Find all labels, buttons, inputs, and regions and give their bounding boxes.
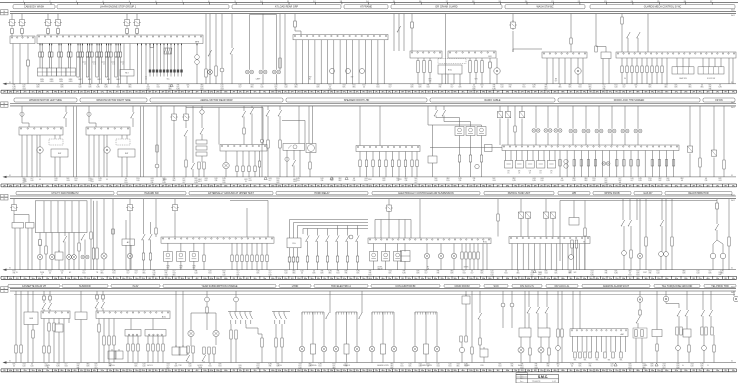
resistor R39	[398, 160, 400, 167]
svg-text:S,W: S,W	[614, 273, 618, 275]
wire W115	[489, 68, 491, 84]
wire W463	[702, 316, 704, 327]
svg-text:2Fc: 2Fc	[447, 185, 450, 187]
wire comb1-3	[160, 45, 162, 69]
svg-text:5Fd: 5Fd	[622, 278, 625, 280]
svg-text:1Fe: 1Fe	[716, 92, 719, 94]
lamp L-pos	[208, 70, 213, 75]
resistor R130	[557, 329, 559, 337]
wire W182	[243, 117, 245, 129]
svg-text:9Fc: 9Fc	[254, 92, 257, 94]
wire W23	[51, 44, 53, 53]
wire comb3-6	[651, 58, 653, 66]
svg-text:8Fb: 8Fb	[561, 92, 564, 94]
svg-text:2Fc: 2Fc	[375, 185, 378, 187]
pin stub	[70, 44, 72, 46]
wire W215	[435, 106, 437, 110]
wire comb4-5	[595, 151, 597, 177]
lamp frame N SERVO HON	[415, 312, 437, 346]
resistor K-a	[514, 126, 516, 132]
resistor R108	[137, 344, 139, 351]
connector X1	[10, 36, 35, 44]
wire W353	[49, 300, 51, 303]
fuse F38	[292, 257, 295, 262]
wire W236	[557, 133, 559, 145]
wire sd	[157, 336, 159, 344]
lamp L7	[101, 253, 107, 259]
wire W95	[403, 14, 405, 51]
wire W360	[48, 353, 50, 363]
wire W203	[293, 166, 295, 177]
resistor R118	[213, 347, 215, 354]
svg-text:1Fe: 1Fe	[46, 185, 49, 187]
control unit U11	[47, 68, 57, 76]
label T65	[377, 364, 389, 367]
wire W395	[203, 354, 205, 355]
wire comb1-long2	[145, 44, 147, 84]
pin stub	[60, 44, 62, 46]
svg-text:DIV ACCU AL: DIV ACCU AL	[555, 285, 570, 288]
svg-text:9Fa: 9Fa	[583, 370, 586, 372]
svg-text:5Fb: 5Fb	[644, 185, 647, 187]
wire W53	[110, 44, 112, 53]
wire long B	[143, 107, 145, 177]
wire W51	[106, 44, 108, 53]
wire W435	[546, 291, 548, 307]
switch S48	[478, 313, 482, 319]
svg-text:2Fe: 2Fe	[395, 185, 398, 187]
wire comb4-15	[666, 151, 668, 177]
section title box: FR DN	[703, 98, 735, 102]
resistor R106	[127, 344, 129, 351]
wire tel11	[624, 336, 626, 352]
wire comb5b-1	[236, 262, 238, 270]
wire W69	[160, 73, 162, 77]
resistor R18	[646, 66, 648, 73]
bus right-edge tag	[731, 101, 734, 109]
wire comb5-1	[236, 243, 238, 255]
ruler tick 18	[472, 1, 475, 4]
wire W21	[49, 44, 51, 53]
resistor R124	[460, 336, 462, 342]
wire acu	[102, 291, 104, 295]
wire W408	[312, 312, 314, 344]
wire W252	[39, 245, 41, 255]
fuse F26	[110, 52, 113, 57]
wire W184	[251, 114, 253, 145]
svg-text:CAB BODY WASH: CAB BODY WASH	[24, 6, 44, 9]
wire W150	[39, 153, 41, 177]
svg-text:7Fb: 7Fb	[514, 92, 517, 94]
wire W383	[162, 351, 164, 363]
resistor R67	[149, 253, 151, 260]
wire comb2-6	[333, 40, 335, 84]
fuse F17	[81, 52, 84, 57]
wire W351	[32, 338, 34, 363]
power bus line (lower)	[10, 198, 736, 200]
label T37	[518, 171, 521, 175]
section title box: CRUD ROOM	[444, 284, 480, 288]
svg-text:1Fb: 1Fb	[469, 370, 472, 372]
wire W232	[547, 106, 549, 128]
actuator units hazard	[164, 252, 199, 262]
wire wk	[622, 199, 624, 220]
lamp pair heater 612	[608, 129, 616, 133]
resistor R74	[256, 255, 258, 262]
wire W441	[557, 291, 559, 329]
relay K-ecas	[385, 203, 393, 213]
wire lamp feed	[598, 106, 600, 129]
svg-text:2Fe: 2Fe	[116, 92, 119, 94]
svg-text:HORN RELAY: HORN RELAY	[314, 192, 330, 195]
wire W309	[473, 259, 475, 270]
resistor R149	[711, 327, 713, 335]
resistor R63	[90, 232, 92, 239]
label T40	[550, 171, 553, 175]
wire W226	[507, 119, 509, 146]
ruler line	[0, 1, 738, 3]
pin stub	[58, 44, 60, 46]
wire W10	[126, 34, 128, 36]
fuse F15	[77, 52, 80, 57]
wire W343	[728, 199, 730, 237]
wire W284	[143, 240, 145, 254]
wire pill3	[461, 244, 463, 253]
svg-text:1Fa: 1Fa	[657, 370, 660, 372]
svg-text:1Fc: 1Fc	[476, 278, 479, 280]
wire W466	[703, 350, 705, 362]
wire W93	[393, 14, 395, 51]
resistor R20	[198, 162, 200, 169]
resistor R60	[723, 160, 725, 169]
wire W11	[136, 14, 138, 18]
pin stub	[106, 44, 108, 46]
switch S41	[48, 303, 52, 309]
wire W337	[671, 199, 673, 237]
svg-text:3Fa: 3Fa	[675, 185, 678, 187]
section title box: HORN RELAY	[276, 191, 368, 195]
svg-text:9Fb: 9Fb	[454, 278, 457, 280]
svg-text:2Fe: 2Fe	[168, 92, 171, 94]
svg-text:2Fe: 2Fe	[116, 370, 119, 372]
wire jog wm	[22, 116, 29, 127]
section title box: AT LOAD REAR GRP	[232, 5, 341, 9]
fuse F36	[112, 229, 115, 234]
svg-text:5Fd: 5Fd	[427, 370, 430, 372]
wire frame c	[425, 354, 427, 363]
wire W6	[47, 34, 49, 36]
wire long J	[559, 201, 561, 262]
terminal T10	[149, 70, 151, 73]
wire comb5b-7	[266, 262, 268, 270]
wire W258	[58, 233, 60, 253]
wire comb4-4	[587, 151, 589, 177]
resistor R70	[236, 255, 238, 262]
svg-text:2Fb: 2Fb	[684, 185, 687, 187]
label T11	[112, 64, 114, 66]
section title box: WHITE KNOB	[593, 191, 631, 195]
section title box: HON ELECTRIC A	[314, 284, 368, 288]
svg-text:EFI CRANK GUARD: EFI CRANK GUARD	[435, 6, 457, 9]
wire W402	[235, 339, 237, 363]
ground collector band 3	[3, 268, 737, 271]
wire k12 down	[129, 213, 131, 254]
section title box: WB	[558, 191, 590, 195]
svg-text:2Fe: 2Fe	[24, 92, 27, 94]
pill pair box	[633, 328, 647, 338]
ruler tick 15	[393, 1, 396, 4]
ruler tick 19	[498, 1, 501, 4]
unit U42	[115, 349, 123, 359]
svg-text:31: 31	[9, 361, 11, 363]
switch unit U2	[51, 149, 68, 157]
wire W60	[117, 57, 119, 84]
svg-text:6Fb: 6Fb	[271, 92, 274, 94]
resistor R48	[580, 160, 582, 167]
svg-text:7Fa: 7Fa	[615, 278, 618, 280]
wire rdo drop	[379, 152, 381, 161]
wire comb1-long1	[141, 44, 143, 84]
wire long A	[140, 107, 142, 177]
ruler tick 13	[340, 1, 343, 4]
wire loop top	[250, 14, 277, 16]
wire up a	[246, 208, 248, 237]
svg-text:CON AUDITOR BF: CON AUDITOR BF	[395, 285, 416, 288]
wire dist2 feed	[235, 291, 237, 297]
svg-text:4Fb: 4Fb	[553, 278, 556, 280]
lamp L19	[369, 346, 375, 352]
svg-text:4Fe: 4Fe	[707, 370, 710, 372]
svg-text:4Fb: 4Fb	[9, 370, 12, 372]
wire W165	[156, 168, 158, 177]
lamp L8	[127, 253, 132, 258]
svg-text:4Fa: 4Fa	[576, 370, 579, 372]
wire W85	[276, 15, 278, 70]
resistor R75	[261, 255, 263, 262]
wire W197	[267, 148, 269, 177]
wire W415	[461, 342, 463, 347]
resistor R56	[658, 160, 660, 167]
resistor R128	[529, 348, 531, 355]
wire sun drop	[53, 319, 55, 324]
svg-text:5Fa: 5Fa	[101, 92, 104, 94]
svg-text:9Fd: 9Fd	[54, 92, 57, 94]
svg-text:S,W: S,W	[194, 182, 198, 184]
wire W270	[90, 199, 92, 232]
label T32	[244, 179, 248, 183]
wire W66	[149, 73, 151, 77]
connector X3	[542, 52, 587, 58]
wire W112	[481, 58, 483, 61]
wire rg drop	[297, 248, 299, 257]
svg-text:9Fc: 9Fc	[732, 185, 735, 187]
section title box: GUARDS MECH CONTROL SYNC	[590, 5, 735, 9]
svg-text:2Fd: 2Fd	[297, 92, 300, 94]
ECAS control unit	[368, 238, 491, 244]
wire comb6-8	[556, 244, 558, 270]
wire sw down	[347, 241, 349, 256]
svg-text:6Fd: 6Fd	[527, 185, 530, 187]
wire act feed0	[427, 106, 429, 125]
bracket tag	[92, 61, 96, 63]
switch S44	[186, 355, 190, 361]
svg-text:9Fc: 9Fc	[732, 370, 735, 372]
fuse F33	[20, 112, 24, 116]
svg-text:CRUD ROOM: CRUD ROOM	[454, 285, 469, 288]
resistor R64	[92, 248, 94, 259]
wire W437	[540, 337, 542, 347]
wire W251	[39, 233, 41, 240]
label T9	[103, 64, 105, 66]
label T20	[429, 79, 432, 83]
svg-text:9Fa: 9Fa	[109, 185, 112, 187]
wire frame c	[312, 354, 314, 363]
resistor R12	[621, 17, 623, 24]
ground collector band 2	[3, 175, 737, 178]
wire W70	[163, 73, 165, 77]
wire act-h	[193, 243, 195, 251]
wire W45	[96, 44, 98, 53]
wire W328	[639, 199, 641, 254]
fuse F2	[21, 29, 24, 34]
resistor R37	[385, 160, 387, 167]
svg-text:2Fb: 2Fb	[441, 278, 444, 280]
wire comb5-3	[246, 243, 248, 255]
svg-text:1Fb: 1Fb	[469, 185, 472, 187]
wire jog comb1	[150, 44, 154, 48]
svg-text:2Fb: 2Fb	[216, 370, 219, 372]
switch S32	[326, 236, 330, 242]
wire W409	[346, 312, 348, 344]
wire W291	[203, 262, 205, 270]
fuse F21	[96, 52, 99, 57]
wire W277	[103, 259, 105, 270]
resistor R68	[203, 255, 205, 262]
svg-text:9Fb: 9Fb	[408, 370, 411, 372]
wire W424	[502, 307, 504, 328]
wire comb4-0	[559, 151, 561, 177]
wire W257	[51, 260, 53, 270]
beacon N SERVO HON	[424, 344, 429, 354]
svg-text:4Fc: 4Fc	[80, 278, 83, 280]
resistor R51	[616, 160, 618, 167]
section title box: ELECTRICALLY CONTROLLED AIR SUSPENSION	[372, 191, 480, 195]
wire W73	[174, 73, 176, 77]
label T24	[707, 78, 716, 80]
terminal strip band 3	[1, 276, 737, 279]
wire W176	[192, 106, 194, 163]
svg-text:1Fa: 1Fa	[32, 185, 35, 187]
svg-text:9Fc: 9Fc	[317, 92, 320, 94]
wire pill3	[473, 244, 475, 253]
svg-text:9Fe: 9Fe	[414, 370, 417, 372]
wire W91	[284, 14, 286, 84]
wire up b	[230, 201, 268, 238]
wire comb4-9	[623, 151, 625, 177]
switch S43	[101, 302, 105, 308]
section title box: IS AV	[111, 284, 160, 288]
svg-text:9Fa: 9Fa	[651, 278, 654, 280]
wire W213	[411, 167, 413, 177]
ACU unit	[96, 311, 170, 319]
switch S32	[142, 234, 146, 240]
wire ecas rail	[375, 219, 411, 221]
wire comb4-10	[630, 151, 632, 177]
svg-text:6Fd: 6Fd	[369, 370, 372, 372]
wire W130	[577, 58, 579, 68]
wire comb2-9	[352, 40, 354, 84]
wire W326	[623, 255, 625, 269]
wire act3 out	[397, 261, 399, 270]
svg-text:9Fa: 9Fa	[583, 92, 586, 94]
wire W35	[81, 44, 83, 53]
svg-text:WASH STW BC: WASH STW BC	[536, 6, 553, 9]
wire W158	[106, 153, 108, 177]
pin stub	[174, 44, 176, 46]
wire W27	[60, 44, 62, 53]
lamp pair LP1	[245, 70, 253, 74]
section title box: RADIO CABLE	[430, 98, 555, 102]
lamp pair heater 638	[634, 129, 642, 133]
svg-text:9Fa: 9Fa	[589, 185, 592, 187]
wire comb4-3	[580, 151, 582, 177]
label T21	[475, 79, 479, 81]
wire frame l	[301, 352, 303, 363]
resistor R62	[78, 243, 80, 251]
wire W256	[51, 233, 53, 255]
svg-text:6Fd: 6Fd	[210, 92, 213, 94]
relay K5	[123, 18, 131, 28]
wire rg drop	[289, 248, 291, 257]
resistor R58	[672, 160, 674, 167]
wire W412	[329, 291, 331, 313]
wire W407	[281, 347, 283, 363]
resistor R117	[208, 347, 210, 354]
wire comb3-4	[641, 58, 643, 66]
label T47	[192, 266, 196, 270]
label T71	[682, 364, 684, 367]
wire W373	[108, 345, 110, 363]
wire long A	[73, 107, 75, 177]
wire W243	[723, 106, 725, 160]
pin stub	[91, 44, 93, 46]
fuse F22	[98, 52, 101, 57]
svg-text:HZ: HZ	[69, 272, 71, 274]
wire W191	[259, 151, 261, 161]
wire act-h	[167, 243, 169, 251]
wire rail band4	[14, 294, 735, 296]
wire lock-5	[532, 151, 534, 161]
lock unit boxes	[505, 161, 556, 169]
wire sc	[137, 336, 139, 344]
wire W160	[126, 135, 128, 139]
wire W39	[87, 44, 89, 53]
resistor R96	[20, 345, 22, 353]
wire W301	[388, 199, 390, 203]
resistor R133	[579, 352, 581, 358]
wire W55	[110, 57, 112, 62]
wire W289	[155, 199, 157, 228]
svg-text:4Fb: 4Fb	[38, 185, 41, 187]
wire W421	[483, 357, 485, 363]
wire W382	[157, 351, 159, 363]
label T29	[106, 179, 108, 181]
resistor R1	[205, 69, 207, 77]
resistor R14	[626, 66, 628, 73]
switch S37	[715, 224, 719, 230]
svg-text:2Fd: 2Fd	[142, 370, 145, 372]
wire W139	[647, 14, 649, 52]
